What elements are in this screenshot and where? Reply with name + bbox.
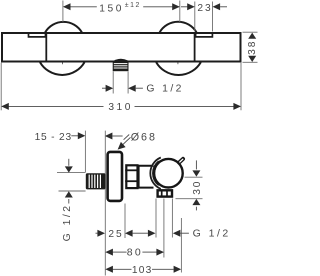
- label o68 leader: [121, 137, 131, 147]
- dim G1/2 right outside arrow: [128, 85, 136, 92]
- handle circle: [154, 159, 183, 188]
- notch right: [196, 34, 213, 37]
- stub dim arrow down: [68, 159, 70, 166]
- dim 30 ext top: [185, 176, 203, 178]
- notch left: [29, 34, 46, 37]
- left knob center tick: [62, 54, 64, 64]
- dim 38 ext top: [243, 31, 258, 33]
- dim G1/2 ext left top view: [112, 72, 114, 94]
- right knob top arc: [160, 22, 197, 33]
- dim 15-23 right outside arrow: [105, 133, 113, 140]
- dim 25 left outside arrow: [96, 232, 98, 234]
- svg-text:80: 80: [127, 247, 143, 259]
- left knob bottom arc: [40, 62, 85, 75]
- escutcheon: [108, 152, 122, 201]
- dim 23 ext right: [212, 2, 214, 32]
- right knob center tick: [177, 57, 179, 64]
- dim 80 arrow left: [105, 249, 113, 256]
- dim G1/2 outlet left arrow: [148, 230, 156, 237]
- dim 150 arrow left: [63, 3, 71, 10]
- dim 38 arrow up: [248, 33, 256, 39]
- seam right: [194, 32, 196, 62]
- dim 150 arrow right: [172, 3, 180, 10]
- svg-text:30: 30: [192, 180, 203, 195]
- svg-text:150: 150: [99, 4, 124, 15]
- escutcheon rear ext: [124, 204, 126, 239]
- outlet ext left: [155, 199, 157, 238]
- body sleeve: [139, 166, 154, 188]
- dim 38 ext bottom: [243, 61, 258, 63]
- outlet ext right: [171, 199, 173, 238]
- threaded stub G1/2 top view: [113, 62, 129, 71]
- dim 310 arrow left: [1, 103, 9, 110]
- outlet dome above stub: [111, 59, 130, 62]
- dim 80 line: [113, 251, 127, 253]
- label o68 leader slash: [124, 135, 130, 140]
- svg-text:G 1/2: G 1/2: [62, 203, 73, 241]
- dim G1/2 ext right top view: [127, 72, 129, 94]
- svg-text:±12: ±12: [125, 2, 141, 9]
- wall thread stub side view: [86, 173, 106, 189]
- dim 15-23 ext: [84, 131, 86, 172]
- dim 150 ext right: [179, 1, 181, 23]
- stub dim ext top: [57, 171, 86, 173]
- svg-text:Ø68: Ø68: [131, 132, 157, 144]
- svg-text:G 1/2: G 1/2: [146, 84, 183, 95]
- svg-text:15 - 23: 15 - 23: [35, 132, 72, 143]
- dim 15-23 line arrow: [71, 135, 78, 137]
- dim 23 ext left: [194, 2, 196, 32]
- left knob top arc: [45, 22, 82, 33]
- dim 38 arrow down: [248, 56, 256, 62]
- hex nut: [126, 165, 137, 188]
- dim 310 ext left: [0, 63, 2, 111]
- right knob bottom arc: [156, 62, 201, 75]
- dim 30 arrow up: [192, 199, 200, 205]
- svg-text:38: 38: [247, 40, 258, 55]
- dim 310 arrow right: [233, 103, 241, 110]
- dim 103 arrow right: [174, 266, 182, 273]
- wall face ext line: [104, 131, 106, 276]
- svg-text:25: 25: [108, 229, 123, 240]
- dim 310 line: [2, 105, 104, 107]
- shared tail: [133, 232, 148, 234]
- dim G1/2 outlet right arrow: [173, 230, 181, 237]
- dim G1/2 left outside arrow: [102, 87, 106, 89]
- dim 30 ext bottom: [176, 198, 203, 200]
- stub dim arrow up: [65, 191, 73, 197]
- svg-text:G 1/2: G 1/2: [193, 228, 231, 240]
- outlet ext center: [163, 199, 165, 258]
- flange arcs: [150, 158, 160, 189]
- safety stop nub: [179, 159, 183, 163]
- dim 23 right outside arrow: [213, 3, 221, 10]
- dim 150 ext left: [62, 1, 64, 23]
- right ext for 103: [180, 218, 182, 273]
- dim 30 arrow down: [195, 160, 197, 169]
- dim 23 left outside arrow: [181, 6, 188, 8]
- svg-text:310: 310: [108, 102, 132, 113]
- mixer body bar: [2, 33, 241, 62]
- svg-text:23: 23: [197, 3, 212, 14]
- hose outlet block: [158, 190, 172, 196]
- dim 80 arrow right: [156, 249, 164, 256]
- seam left: [45, 32, 47, 62]
- dim 103 line: [113, 268, 132, 270]
- svg-text:103: 103: [132, 265, 153, 276]
- dim 25 right outside arrow: [125, 230, 133, 237]
- dim 310 ext right: [240, 63, 242, 111]
- dim 150 line: [64, 6, 97, 8]
- stub dim ext bottom: [59, 190, 86, 192]
- dim 103 arrow left: [105, 266, 113, 273]
